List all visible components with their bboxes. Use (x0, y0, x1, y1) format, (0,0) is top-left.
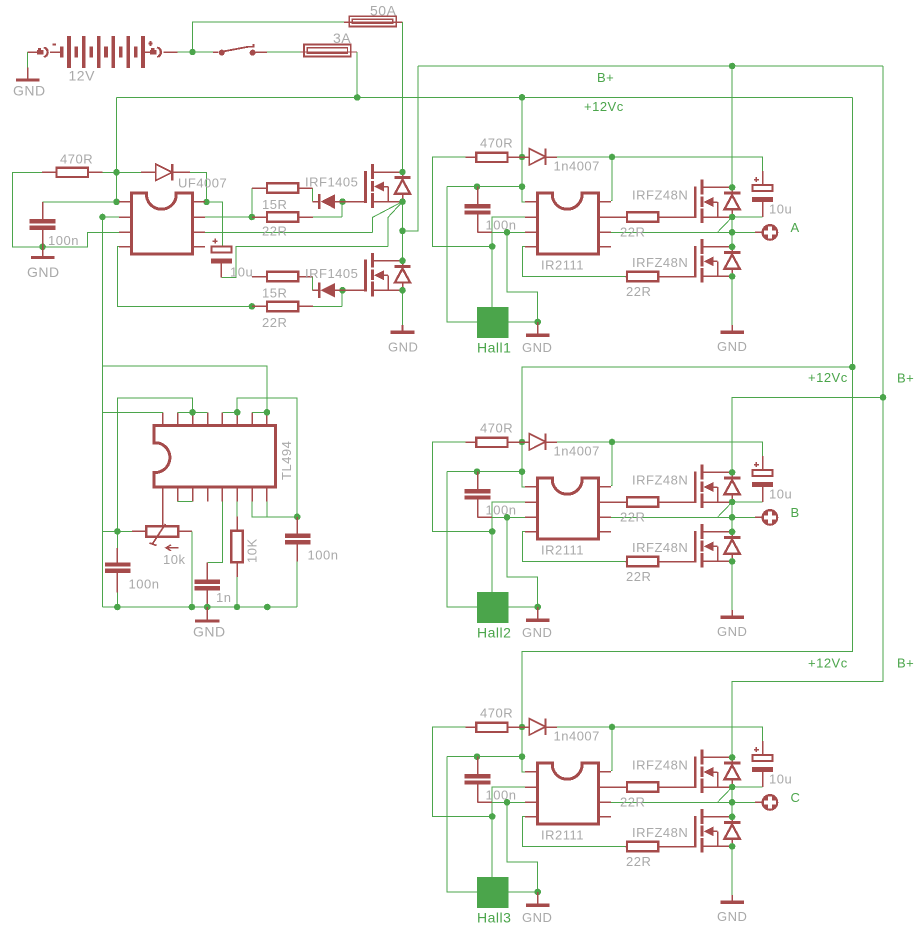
svg-text:B+: B+ (897, 656, 914, 671)
svg-text:Hall2: Hall2 (477, 625, 511, 641)
svg-text:100n: 100n (486, 503, 517, 518)
svg-text:IRFZ48N: IRFZ48N (632, 540, 688, 555)
svg-text:GND: GND (522, 910, 552, 925)
svg-text:+12Vc: +12Vc (584, 99, 624, 114)
svg-text:50A: 50A (370, 3, 397, 19)
svg-text:10K: 10K (245, 538, 260, 563)
svg-text:GND: GND (522, 625, 552, 640)
svg-text:100n: 100n (129, 577, 160, 592)
svg-text:A: A (791, 220, 800, 235)
svg-text:GND: GND (717, 909, 747, 924)
svg-text:1n4007: 1n4007 (554, 729, 600, 744)
svg-text:IR2111: IR2111 (541, 543, 584, 558)
svg-text:22R: 22R (626, 854, 651, 869)
svg-text:22R: 22R (626, 569, 651, 584)
svg-text:10u: 10u (769, 202, 792, 217)
svg-text:10u: 10u (769, 772, 792, 787)
svg-text:22R: 22R (620, 225, 645, 240)
svg-text:GND: GND (717, 339, 747, 354)
svg-text:15R: 15R (262, 197, 287, 212)
svg-text:22R: 22R (262, 224, 287, 239)
svg-text:IRFZ48N: IRFZ48N (632, 758, 688, 773)
svg-text:Hall1: Hall1 (477, 340, 511, 356)
svg-text:+12Vc: +12Vc (808, 370, 848, 385)
svg-text:IRF1405: IRF1405 (305, 175, 358, 190)
svg-text:10u: 10u (230, 265, 253, 280)
svg-text:100n: 100n (486, 218, 517, 233)
svg-text:IR2111: IR2111 (541, 258, 584, 273)
svg-text:10k: 10k (163, 552, 185, 567)
svg-text:1n4007: 1n4007 (554, 159, 600, 174)
svg-text:B+: B+ (897, 371, 914, 386)
svg-text:1n: 1n (216, 590, 231, 605)
svg-text:B: B (791, 505, 800, 520)
svg-text:GND: GND (717, 624, 747, 639)
svg-text:IRFZ48N: IRFZ48N (632, 825, 688, 840)
svg-text:22R: 22R (620, 510, 645, 525)
svg-text:UF4007: UF4007 (178, 176, 227, 191)
svg-text:10u: 10u (769, 487, 792, 502)
svg-text:C: C (791, 790, 801, 805)
svg-text:470R: 470R (480, 706, 513, 721)
svg-text:Hall3: Hall3 (477, 910, 511, 926)
svg-text:IRF1405: IRF1405 (305, 266, 358, 281)
svg-text:12V: 12V (69, 68, 96, 84)
svg-text:100n: 100n (48, 233, 79, 248)
svg-text:GND: GND (522, 340, 552, 355)
svg-text:22R: 22R (620, 795, 645, 810)
svg-text:GND: GND (193, 624, 226, 640)
svg-text:470R: 470R (480, 136, 513, 151)
svg-text:22R: 22R (262, 315, 287, 330)
svg-text:IR2111: IR2111 (541, 828, 584, 843)
svg-text:100n: 100n (486, 788, 517, 803)
svg-text:B+: B+ (597, 70, 614, 85)
svg-text:+12Vc: +12Vc (808, 656, 848, 671)
svg-text:IRFZ48N: IRFZ48N (632, 188, 688, 203)
svg-text:15R: 15R (262, 286, 287, 301)
svg-text:470R: 470R (480, 421, 513, 436)
svg-text:22R: 22R (626, 284, 651, 299)
svg-text:GND: GND (13, 83, 46, 99)
svg-text:100n: 100n (308, 548, 339, 563)
svg-text:1n4007: 1n4007 (554, 444, 600, 459)
svg-text:GND: GND (388, 340, 418, 355)
svg-text:470R: 470R (60, 152, 93, 167)
svg-text:IRFZ48N: IRFZ48N (632, 255, 688, 270)
svg-text:IRFZ48N: IRFZ48N (632, 473, 688, 488)
svg-text:TL494: TL494 (279, 441, 294, 480)
svg-text:3A: 3A (333, 30, 351, 46)
svg-text:GND: GND (27, 264, 60, 280)
